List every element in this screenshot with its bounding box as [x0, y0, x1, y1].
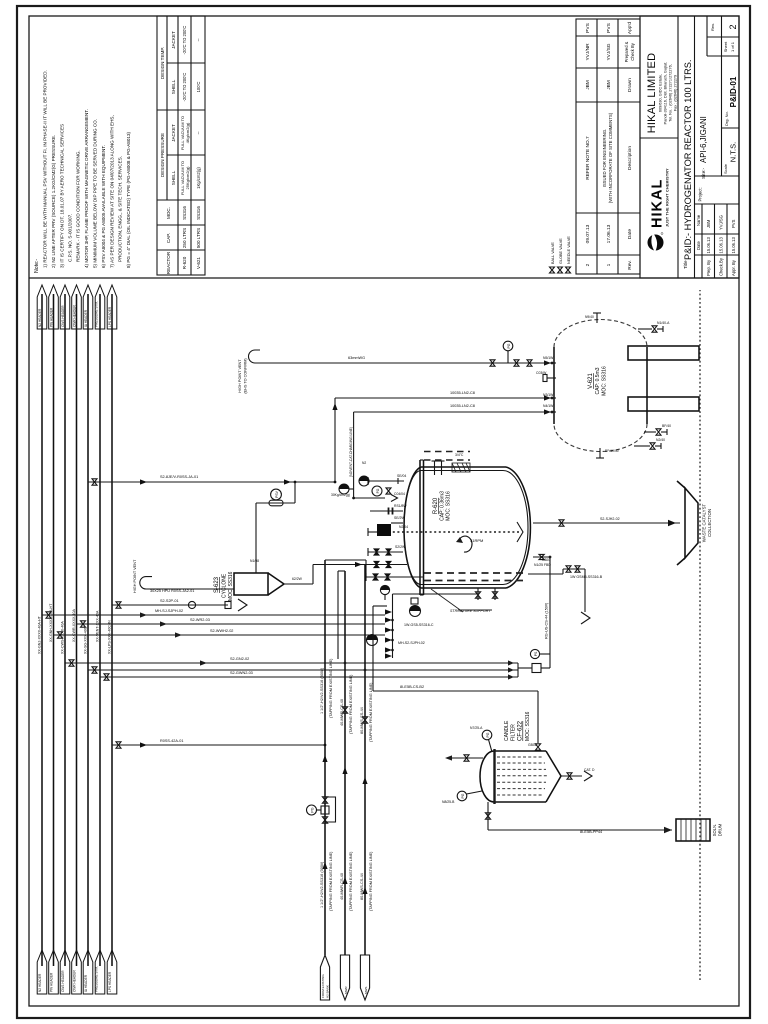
- junction dots: [344, 362, 554, 672]
- svg-text:MOC: SS316: MOC: SS316: [525, 711, 531, 741]
- svg-text:PVS: PVS: [606, 23, 612, 33]
- svg-text:Tel. No. : (02646) 272271/2722: Tel. No. : (02646) 272271/272276,: [669, 64, 673, 122]
- utility drop from header7 (S2-S2P-01): [112, 599, 247, 611]
- svg-text:3/4"C: 3/4"C: [455, 453, 464, 457]
- H2 line from battery limit: [307, 560, 367, 1000]
- svg-text:5) MINIMUM VOLUME BELOW DIP PI: 5) MINIMUM VOLUME BELOW DIP PIPE TO BE S…: [93, 119, 98, 268]
- svg-text:REFER NOTE NO.7: REFER NOTE NO.7: [585, 136, 591, 180]
- svg-text:1W GSM5-SS316-B: 1W GSM5-SS316-B: [570, 575, 603, 579]
- MWS line from battery limit: [360, 565, 373, 1001]
- rotation arrow: [459, 536, 472, 552]
- svg-text:S2-WR2-03: S2-WR2-03: [190, 618, 210, 622]
- svg-text:(TAPPING FROM EXISTING LINE): (TAPPING FROM EXISTING LINE): [329, 851, 333, 911]
- svg-text:40-MWR-CS-40: 40-MWR-CS-40: [340, 873, 344, 900]
- svg-text:(WITH INCORPORATE OF SITE COMM: (WITH INCORPORATE OF SITE COMMENTS): [608, 112, 613, 203]
- svg-text:GLOBE VALVE: GLOBE VALVE: [559, 238, 563, 264]
- svg-text:PG: PG: [486, 732, 490, 737]
- floor / battery limit dashed line: [699, 290, 701, 980]
- svg-text:1Kg/cm2(g): 1Kg/cm2(g): [196, 167, 201, 189]
- svg-text:PW HEADER: PW HEADER: [50, 307, 54, 327]
- H2 PG station: [322, 817, 327, 823]
- svg-text:1 1/2"-H2/V2-SS316 (300#): 1 1/2"-H2/V2-SS316 (300#): [320, 667, 324, 714]
- svg-text:XX-GNH-XXXX-40A-HT: XX-GNH-XXXX-40A-HT: [49, 603, 53, 642]
- svg-text:JBM: JBM: [606, 80, 612, 90]
- svg-text:Date: Date: [696, 240, 701, 250]
- sample branch below reactor: [528, 566, 603, 624]
- svg-text:JBM: JBM: [706, 219, 711, 228]
- svg-text:CAP: 0.5m3: CAP: 0.5m3: [595, 367, 601, 394]
- svg-text:CWS HEADER: CWS HEADER: [61, 970, 65, 992]
- MWR line from battery limit: [338, 571, 353, 1000]
- svg-text:PG: PG: [376, 488, 380, 493]
- svg-text:R-620: R-620: [182, 256, 187, 269]
- top nozzles: [368, 478, 403, 556]
- svg-text:N7/25-A: N7/25-A: [470, 726, 483, 730]
- svg-text:RS1/8W: RS1/8W: [394, 504, 407, 508]
- svg-text:YVJ/NR: YVJ/NR: [585, 43, 591, 61]
- svg-text:7) AS PER DESIGN REVIEW AT SIT: 7) AS PER DESIGN REVIEW AT SITE ON 04/07…: [110, 115, 115, 268]
- horizontals: [166, 110, 168, 200]
- svg-text:GB01: GB01: [542, 558, 551, 562]
- svg-text:V-621: V-621: [196, 257, 201, 269]
- svg-text:BF/40: BF/40: [662, 424, 671, 428]
- svg-text:HIKAL LIMITED: HIKAL LIMITED: [646, 53, 658, 133]
- svg-text:15.06.13: 15.06.13: [706, 237, 711, 254]
- svg-text:N2/04: N2/04: [399, 525, 408, 529]
- svg-text:(N2/VENT-CAT.CHARGING LINE): (N2/VENT-CAT.CHARGING LINE): [349, 427, 353, 477]
- svg-text:YVJ/SG: YVJ/SG: [719, 215, 724, 230]
- svg-text:N2/40: N2/40: [656, 438, 665, 442]
- svg-text:P&ID:- HYDROGENATOR REACTOR: P&ID:- HYDROGENATOR REACTOR 100 LTRS.: [683, 60, 693, 260]
- svg-text:LPS HEADER: LPS HEADER: [108, 971, 112, 992]
- svg-text:CAP.: CAP.: [166, 233, 171, 243]
- svg-text:SS316: SS316: [182, 206, 187, 220]
- svg-text:N2 HEADER: N2 HEADER: [38, 973, 42, 992]
- svg-text:N2 HEADER: N2 HEADER: [38, 308, 42, 327]
- svg-text:C.P.S. NO. S-001/2007.: C.P.S. NO. S-001/2007.: [68, 214, 73, 262]
- left end flags: [37, 950, 117, 994]
- svg-text:8) PG = 4" DIAL (OIL INDICATED: 8) PG = 4" DIAL (OIL INDICATED) TYPE (PG…: [126, 131, 131, 268]
- svg-text:31RPM: 31RPM: [470, 538, 483, 543]
- dome face nozzles: [599, 448, 601, 458]
- diagonal structure brace: [431, 589, 463, 612]
- verticals: [157, 249, 205, 251]
- body flange: [419, 460, 421, 595]
- right column divider: [29, 277, 739, 279]
- top nozzles N5,C03,N3,N4: [543, 363, 556, 412]
- svg-text:Name: Name: [696, 214, 701, 226]
- svg-text:-20'C TO 200'C: -20'C TO 200'C: [182, 73, 187, 102]
- svg-text:HIKAL: HIKAL: [650, 179, 666, 228]
- filter feed line: [373, 606, 541, 750]
- svg-text:1: 1: [606, 263, 612, 266]
- revision history table: [576, 19, 640, 274]
- svg-text:IA HEADER: IA HEADER: [84, 309, 88, 327]
- svg-text:250 LTRS: 250 LTRS: [182, 228, 187, 248]
- svg-text:1 of 1: 1 of 1: [730, 41, 735, 52]
- svg-text:(TAPPING FROM EXISTING LINE): (TAPPING FROM EXISTING LINE): [329, 658, 333, 718]
- svg-text:30X25 HPU R0SS-JA2-01: 30X25 HPU R0SS-JA2-01: [150, 589, 194, 593]
- flush bottom valve assembly piping: [508, 554, 551, 679]
- svg-text:2) N2 LINE AFTER PRV (SOURCE): 2) N2 LINE AFTER PRV (SOURCE) 1.2KG/CM2(…: [51, 135, 56, 268]
- header line 4: [76, 294, 78, 966]
- svg-text:JACKET: JACKET: [171, 124, 176, 142]
- top drive: gearbox + motor: [377, 524, 391, 536]
- utility drop from header6 to flush assembly: [100, 674, 518, 680]
- right end flags: [37, 285, 117, 329]
- svg-text:MH-S2-SJPH-02: MH-S2-SJPH-02: [398, 641, 425, 645]
- filter cone discharge: [561, 768, 595, 781]
- svg-text:500 LTRS: 500 LTRS: [196, 228, 201, 248]
- svg-text:BF-10/40: BF-10/40: [605, 449, 619, 453]
- jacket stubs left wall: [477, 588, 479, 600]
- vessel V-621: [536, 313, 699, 458]
- svg-text:Rev.: Rev.: [710, 23, 715, 31]
- svg-text:HIGH POINT VENT: HIGH POINT VENT: [133, 559, 137, 593]
- utility drop from header2: [54, 629, 386, 638]
- svg-text:SE/04: SE/04: [397, 474, 406, 478]
- reactor overhead to V-621 N4: [331, 404, 552, 499]
- svg-text:Appr. By: Appr. By: [731, 259, 736, 276]
- svg-text:S2-S2P-01: S2-S2P-01: [160, 599, 179, 603]
- svg-text:15.06.13: 15.06.13: [719, 237, 724, 254]
- svg-text:MOC: SS316: MOC: SS316: [602, 366, 608, 396]
- svg-text:Panoli-394116, Dist. Bharuch,: Panoli-394116, Dist. Bharuch, Gujrat.: [664, 62, 668, 125]
- reactor R-620: [366, 452, 530, 614]
- candle filter CF-622: [480, 711, 561, 804]
- svg-text:XX-GN2-XXXX-40A-HT: XX-GN2-XXXX-40A-HT: [38, 615, 42, 654]
- svg-text:C04/04: C04/04: [394, 492, 405, 496]
- svg-text:(TAPPING FROM EXISTING LINE): (TAPPING FROM EXISTING LINE): [369, 851, 373, 911]
- svg-text:S2-8JE/V-R0SS-JA-01: S2-8JE/V-R0SS-JA-01: [160, 475, 198, 479]
- svg-text:HIGH POINT VENT: HIGH POINT VENT: [238, 359, 242, 393]
- svg-text:JACKET: JACKET: [171, 31, 176, 49]
- utility drop from header4: [77, 618, 386, 627]
- svg-text:1) REACTOR WILL BE WITH MANUAL: 1) REACTOR WILL BE WITH MANUAL PSV WITHO…: [43, 70, 48, 268]
- svg-text:1W-GS5-SS316-C: 1W-GS5-SS316-C: [404, 623, 434, 627]
- svg-text:--: --: [196, 131, 201, 135]
- waste catalyst drop from reactor bottom: [533, 517, 680, 526]
- svg-text:2: 2: [585, 263, 591, 266]
- cyclone high point vent: [133, 559, 234, 593]
- header line 7: [111, 294, 113, 966]
- svg-text:N1/08: N1/08: [250, 559, 259, 563]
- instruments on overhead: [339, 484, 349, 494]
- svg-text:(EHS TO CONFIRM): (EHS TO CONFIRM): [244, 358, 248, 394]
- PSV assembly on riser: [269, 500, 283, 506]
- svg-text:N3/1W: N3/1W: [543, 393, 554, 397]
- svg-text:PVS: PVS: [731, 219, 736, 228]
- svg-text:XX-CWR-XXXX-40A: XX-CWR-XXXX-40A: [72, 608, 76, 642]
- svg-text:PW HEADER: PW HEADER: [50, 972, 54, 992]
- reactor top feed manifold: [367, 585, 479, 658]
- svg-text:WASTE CATALYST: WASTE CATALYST: [702, 503, 707, 542]
- gauge cluster near dome: [359, 476, 369, 486]
- svg-text:Scale: Scale: [723, 163, 728, 174]
- svg-text:6) PSV A8004 & PG A8005 AVAILA: 6) PSV A8004 & PG A8005 AVAILABLE WITH E…: [101, 145, 106, 268]
- svg-text:DESIGN PRESSURE: DESIGN PRESSURE: [160, 133, 165, 177]
- svg-text:2: 2: [728, 24, 738, 29]
- svg-text:Sheet: Sheet: [723, 41, 728, 52]
- svg-text:S2-WWH2-02: S2-WWH2-02: [210, 629, 233, 633]
- svg-text:SS316: SS316: [196, 206, 201, 220]
- svg-text:Site:-: Site:-: [701, 167, 707, 179]
- svg-text:80-MWS-CS-44: 80-MWS-CS-44: [360, 873, 364, 900]
- svg-text:Check By: Check By: [630, 42, 635, 60]
- svg-text:SOLN.: SOLN.: [712, 824, 717, 837]
- svg-text:30Kg/cm2(g): 30Kg/cm2(g): [331, 493, 350, 497]
- svg-text:API-6,JIGANI: API-6,JIGANI: [699, 116, 708, 163]
- svg-text:N8/25-B: N8/25-B: [442, 800, 455, 804]
- svg-text:PG: PG: [507, 343, 511, 348]
- svg-text:PSV: PSV: [275, 490, 279, 498]
- svg-text:Prep. By: Prep. By: [706, 259, 711, 276]
- candles dashed: [497, 757, 547, 795]
- svg-text:SE/2W: SE/2W: [394, 516, 405, 520]
- svg-text:-20'C TO 200'C: -20'C TO 200'C: [182, 26, 187, 55]
- svg-text:JBM: JBM: [585, 80, 591, 90]
- svg-text:CF-622: CF-622: [518, 720, 524, 741]
- branch from header5 to reactor (S2 gas): [88, 475, 404, 485]
- svg-text:RG-US-CS-44 (150#): RG-US-CS-44 (150#): [545, 602, 549, 639]
- svg-text:COLLECTION: COLLECTION: [707, 509, 712, 537]
- HIKAL bird logo: [648, 233, 664, 253]
- filter drain to drum: [485, 802, 672, 834]
- svg-text:PG: PG: [461, 793, 465, 798]
- svg-text:H2 BANK: H2 BANK: [325, 985, 329, 998]
- svg-text:YVJ/SG: YVJ/SG: [606, 43, 612, 60]
- svg-text:PRESSURE STM.: PRESSURE STM.: [95, 301, 99, 327]
- scale band: [695, 175, 740, 177]
- waste catalyst collection funnel: [677, 481, 712, 565]
- svg-text:63mmWG: 63mmWG: [348, 356, 365, 360]
- shell outer: [404, 467, 421, 588]
- svg-text:R0SS-42A-01: R0SS-42A-01: [160, 739, 183, 743]
- svg-text:80-MWS-CS-44: 80-MWS-CS-44: [360, 707, 364, 734]
- svg-text:Date: Date: [627, 229, 633, 239]
- utility drop from header5 to flush assembly: [88, 667, 518, 675]
- svg-text:Drg. No.: Drg. No.: [724, 111, 729, 126]
- header line 3: [64, 294, 66, 966]
- svg-text:PRODUCTION, ENGG., & SITE TECH: PRODUCTION, ENGG., & SITE TECH. SERVICES…: [118, 156, 123, 262]
- svg-text:FILTER: FILTER: [511, 724, 517, 741]
- svg-text:09.07.13: 09.07.13: [585, 224, 591, 243]
- svg-text:NEEDLE VALVE: NEEDLE VALVE: [567, 236, 571, 264]
- svg-text:4) MOTOR 3HP, FLAME PROOF WITH: 4) MOTOR 3HP, FLAME PROOF WITH MAGNETIC …: [84, 109, 89, 268]
- svg-text:CWR HEADER: CWR HEADER: [73, 970, 77, 992]
- header line 6: [99, 294, 101, 966]
- svg-text:Description: Description: [627, 146, 633, 170]
- svg-text:N1/40-A: N1/40-A: [657, 321, 670, 325]
- svg-text:CWS HEADER: CWS HEADER: [61, 305, 65, 327]
- svg-text:MWS: MWS: [364, 987, 368, 994]
- svg-text:PG: PG: [310, 807, 314, 812]
- svg-text:Check.By: Check.By: [719, 257, 724, 276]
- svg-text:XX-SG-XXX-40C: XX-SG-XXX-40C: [84, 626, 88, 654]
- svg-text:Fax : (02646) 272279: Fax : (02646) 272279: [674, 75, 678, 111]
- svg-text:N1/25 FBD: N1/25 FBD: [534, 563, 551, 567]
- cyclone dust outlet: [284, 562, 370, 584]
- svg-text:App'd: App'd: [627, 22, 633, 34]
- svg-text:IA HEADER: IA HEADER: [84, 974, 88, 992]
- bottom drain nozzles with valves: [634, 326, 667, 449]
- svg-text:V-621: V-621: [588, 373, 594, 389]
- svg-text:10035-LN2-C8: 10035-LN2-C8: [450, 404, 475, 408]
- utility drop from header1: [42, 609, 385, 618]
- svg-text:PVS: PVS: [585, 23, 591, 33]
- svg-text:25Kg/cm2(g): 25Kg/cm2(g): [185, 166, 190, 190]
- svg-text:S2-SJH2-02: S2-SJH2-02: [600, 517, 620, 521]
- svg-text:N9/40: N9/40: [585, 315, 594, 319]
- svg-text:DESIGN TEMP.: DESIGN TEMP.: [160, 47, 165, 79]
- title row: [694, 16, 696, 278]
- svg-text:REACTOR: REACTOR: [166, 251, 171, 274]
- svg-text:R-620: R-620: [433, 497, 439, 514]
- svg-text:CANDLE: CANDLE: [504, 720, 510, 741]
- svg-text:Prepared &: Prepared &: [624, 41, 629, 62]
- svg-text:Drawn: Drawn: [627, 78, 633, 92]
- header line 2: [53, 294, 55, 966]
- svg-text:CYCLONE: CYCLONE: [222, 573, 228, 598]
- hatched support pad right wall: [452, 463, 470, 472]
- svg-text:DRUM: DRUM: [718, 823, 723, 836]
- solution drum: [676, 819, 723, 841]
- svg-text:S-623: S-623: [214, 576, 220, 593]
- svg-text:N5/1W: N5/1W: [543, 356, 554, 360]
- svg-text:MOC: SS316: MOC: SS316: [446, 491, 452, 521]
- svg-text:CAT. D: CAT. D: [584, 768, 595, 772]
- header line 1: [41, 294, 43, 966]
- svg-text:C03/W: C03/W: [536, 371, 547, 375]
- svg-text:Rev.: Rev.: [627, 260, 633, 270]
- svg-text:P&ID-01: P&ID-01: [729, 76, 738, 107]
- svg-text:Note:-: Note:-: [34, 259, 40, 273]
- svg-text:ISSUED FOR ENGINEERING.: ISSUED FOR ENGINEERING.: [602, 129, 607, 188]
- svg-text:Project:: Project:: [698, 187, 703, 201]
- signature table: [695, 254, 740, 256]
- legs: [628, 397, 699, 411]
- svg-text:S2/2W: S2/2W: [395, 545, 406, 549]
- utility drop from header3 to flush assembly: [65, 657, 518, 666]
- agitator shaft dotted: [379, 531, 520, 533]
- svg-text:BALL VALVE: BALL VALVE: [551, 242, 555, 264]
- svg-text:15.06.13: 15.06.13: [731, 237, 736, 254]
- svg-text:MH-SJ-SJPH-02: MH-SJ-SJPH-02: [155, 609, 183, 613]
- svg-text:SHELL: SHELL: [171, 79, 176, 94]
- svg-text:XX-LPS-XXX-40C-IN: XX-LPS-XXX-40C-IN: [108, 620, 112, 654]
- svg-text:LPS HEADER: LPS HEADER: [108, 306, 112, 327]
- svg-text:CWR HEADER: CWR HEADER: [73, 305, 77, 327]
- svg-text:(TAPPING FROM EXISTING LINE): (TAPPING FROM EXISTING LINE): [349, 851, 353, 911]
- svg-text:609/630, GIDC Estate,: 609/630, GIDC Estate,: [659, 74, 663, 112]
- svg-text:(TAPPING FROM EXISTING LINE): (TAPPING FROM EXISTING LINE): [349, 674, 353, 734]
- right wall side nozzles: [434, 461, 436, 475]
- V-621 high point vent line: [238, 341, 552, 393]
- impeller: [517, 522, 523, 542]
- pressure switch: [530, 649, 539, 658]
- svg-text:8I-E5B-CS-B2: 8I-E5B-CS-B2: [400, 685, 424, 689]
- svg-text:PRESSURE STM.: PRESSURE STM.: [95, 966, 99, 992]
- notes text block: [34, 70, 131, 273]
- svg-text:MWR: MWR: [344, 986, 348, 994]
- svg-text:S2-GN2-02: S2-GN2-02: [230, 657, 249, 661]
- svg-text:100'C: 100'C: [196, 82, 201, 93]
- title block outer box: [640, 16, 739, 278]
- svg-text:MOC: SS316: MOC: SS316: [228, 571, 234, 601]
- cyclone overhead to V-621 N3: [250, 391, 552, 573]
- level dashed lines: [424, 580, 526, 582]
- svg-text:REMARK - IT IS GOOD CONDITION: REMARK - IT IS GOOD CONDITION FOR WORKIN…: [76, 150, 81, 262]
- svg-text:S2-GWN2-03: S2-GWN2-03: [230, 671, 253, 675]
- svg-text:N2: N2: [362, 461, 366, 465]
- reactor specification table: [157, 16, 205, 275]
- svg-text:3) IT IS CERTIFY ON DT. 18.01.: 3) IT IS CERTIFY ON DT. 18.01.07 BY AERO…: [60, 124, 65, 268]
- svg-text:62/2W: 62/2W: [292, 577, 303, 581]
- svg-text:JUST THE RIGHT CHEMISTRY: JUST THE RIGHT CHEMISTRY: [666, 168, 670, 227]
- svg-text:SHELL: SHELL: [171, 170, 176, 185]
- cyclone S-623: [214, 571, 284, 601]
- svg-text:10035-LN2-C8: 10035-LN2-C8: [450, 391, 475, 395]
- company band divider: [640, 137, 678, 139]
- structural column dashed: [424, 459, 470, 461]
- N2 purge drop to H2 line: [112, 739, 326, 748]
- svg-text:N.T.S.: N.T.S.: [729, 142, 738, 162]
- svg-text:--: --: [196, 38, 201, 42]
- svg-text:GB02: GB02: [528, 743, 537, 747]
- header line labels: [38, 603, 112, 654]
- filter instruments: [442, 726, 492, 804]
- svg-text:4Kg/cm2(g): 4Kg/cm2(g): [185, 122, 190, 143]
- header line 5: [87, 294, 89, 966]
- svg-text:8I-E5B-PP44: 8I-E5B-PP44: [580, 830, 602, 834]
- svg-text:MOC.: MOC.: [166, 207, 171, 219]
- svg-text:PS: PS: [534, 651, 538, 656]
- svg-text:17.06.13: 17.06.13: [606, 224, 612, 243]
- svg-text:N4/1W: N4/1W: [543, 404, 554, 408]
